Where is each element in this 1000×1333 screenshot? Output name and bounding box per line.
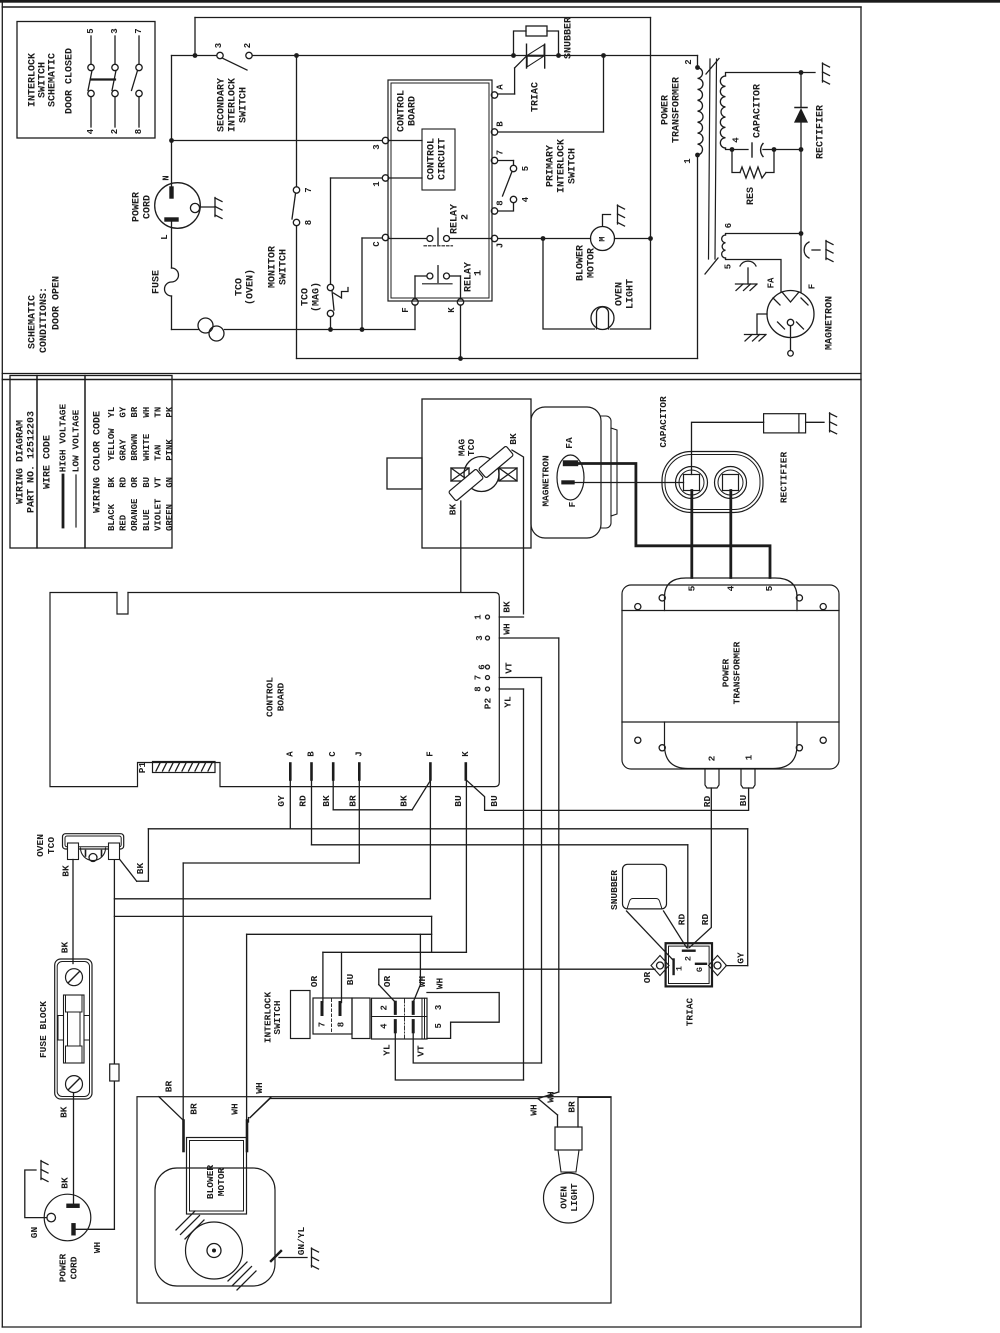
power cord L slot xyxy=(165,218,179,222)
svg-text:SNUBBER: SNUBBER xyxy=(564,17,575,59)
svg-text:TRIAC: TRIAC xyxy=(531,82,542,112)
svg-text:DOOR OPEN: DOOR OPEN xyxy=(52,276,63,330)
svg-text:7: 7 xyxy=(318,1022,328,1027)
capacitor right terminal xyxy=(715,467,747,499)
svg-text:8: 8 xyxy=(304,220,314,225)
junction dot primary top xyxy=(695,65,700,70)
svg-text:7: 7 xyxy=(496,150,506,155)
junction dot monitor riser top xyxy=(294,53,299,58)
wire bottom rail of schematic xyxy=(297,358,698,360)
rectifier diode line xyxy=(800,73,802,108)
relay 1 lower bar xyxy=(423,283,452,285)
core end slash top xyxy=(706,59,719,75)
wire ground pin stub xyxy=(200,206,215,208)
oven light bulb (schematic) xyxy=(591,307,614,330)
junction dot pin 3 line xyxy=(169,138,174,143)
interlock switch left block xyxy=(291,991,311,1039)
svg-text:2: 2 xyxy=(684,956,694,961)
svg-text:5: 5 xyxy=(434,1023,444,1028)
svg-text:OR: OR xyxy=(642,972,653,984)
wire WH blower branch line xyxy=(247,933,432,935)
chassis ground GN/YL xyxy=(311,1248,313,1267)
svg-text:MAGNETRON: MAGNETRON xyxy=(825,296,836,350)
power cord N slot xyxy=(170,187,174,199)
svg-text:2: 2 xyxy=(243,43,253,48)
wire BU slot 8 riser xyxy=(341,952,343,1002)
power cord body (schematic) xyxy=(155,183,201,229)
svg-text:WH: WH xyxy=(434,978,445,990)
svg-text:2: 2 xyxy=(461,214,472,220)
TCO MAG contact bottom xyxy=(327,310,333,316)
svg-text:VT: VT xyxy=(416,1045,427,1057)
wire WH power cord slot to riser xyxy=(76,1228,115,1230)
svg-text:VIOLET VT TAN TN: VIOLET VT TAN TN xyxy=(153,407,163,531)
schematic section top border xyxy=(2,6,861,8)
svg-text:2: 2 xyxy=(684,59,694,64)
control board outer box (schematic) xyxy=(388,80,492,301)
magnetron FA terminal stub xyxy=(563,461,578,467)
oven light loop wires xyxy=(543,239,595,330)
svg-text:K: K xyxy=(447,307,457,313)
svg-text:WH: WH xyxy=(529,1104,540,1116)
svg-text:WH: WH xyxy=(502,623,513,635)
wire OR triac to slot 2 xyxy=(379,968,655,970)
svg-text:MOTOR: MOTOR xyxy=(587,248,598,278)
relay 2 armature bar xyxy=(437,228,439,244)
MAG TCO left terminal xyxy=(451,468,469,481)
svg-text:4: 4 xyxy=(732,137,742,143)
oven cavity box xyxy=(137,1097,611,1303)
wire monitor switch to bottom rail xyxy=(296,226,298,359)
wire contact 4 to pin 8 xyxy=(498,203,514,211)
TCO MAG thermal flag xyxy=(334,288,349,299)
oven light neck xyxy=(558,1150,579,1172)
wire TCO oven line to pin F riser xyxy=(225,329,416,331)
svg-text:SWITCH: SWITCH xyxy=(568,148,579,184)
svg-text:FUSE BLOCK: FUSE BLOCK xyxy=(38,1001,49,1058)
wire fuse block to power cord BK xyxy=(73,1093,75,1204)
feedthrough arc at rectifier line xyxy=(804,242,809,258)
svg-text:J: J xyxy=(496,243,506,248)
TCO MAG contact top xyxy=(327,284,333,290)
svg-text:3: 3 xyxy=(214,43,224,48)
svg-text:TCO: TCO xyxy=(235,278,246,296)
wire RD transformer to triac pin 2 xyxy=(690,788,712,948)
svg-text:BK: BK xyxy=(59,942,70,954)
svg-text:1: 1 xyxy=(372,181,382,187)
RES branch xyxy=(732,150,740,173)
svg-text:F: F xyxy=(808,284,818,289)
svg-text:5: 5 xyxy=(687,585,698,591)
pin 7 of control board xyxy=(491,157,497,163)
wire filament lead 6 xyxy=(726,234,802,236)
splice box on WH wire xyxy=(110,1064,119,1081)
svg-text:LIGHT: LIGHT xyxy=(569,1183,580,1212)
svg-text:F: F xyxy=(567,501,578,507)
svg-text:8: 8 xyxy=(134,129,144,134)
svg-text:F: F xyxy=(425,751,435,756)
svg-text:INTERLOCK: INTERLOCK xyxy=(228,78,239,132)
svg-text:CONTROL: CONTROL xyxy=(265,677,276,717)
wire hot line right segment to transformer xyxy=(252,55,697,57)
svg-text:OR: OR xyxy=(382,976,393,988)
svg-text:5: 5 xyxy=(724,264,734,269)
power cord ground pin xyxy=(190,203,199,212)
oven TCO bracket ticks xyxy=(85,851,87,857)
snubber resistor box xyxy=(526,26,547,36)
power cord BK slot xyxy=(67,1204,80,1208)
wire WH from P2 down xyxy=(558,638,560,1092)
page top black bar xyxy=(0,0,1000,3)
wire HV bottom lead xyxy=(726,148,749,150)
junction dot TCO mag at line xyxy=(328,327,333,332)
svg-text:TRIAC: TRIAC xyxy=(685,997,696,1026)
oven light bulb (wiring) xyxy=(544,1173,594,1223)
junction dot filament top line xyxy=(799,231,804,236)
svg-text:2: 2 xyxy=(707,755,718,761)
power transformer flange (wiring) xyxy=(622,585,839,769)
monitor switch blade xyxy=(292,194,296,220)
svg-text:BR: BR xyxy=(189,1103,200,1115)
relay 1 contacts xyxy=(427,273,433,279)
relay 2 actuator dashed bar xyxy=(424,245,453,247)
magnetron antenna dot xyxy=(787,319,793,325)
oven TCO bracket hole xyxy=(89,854,97,862)
wire BR pin J to blower motor xyxy=(358,780,360,864)
wire pin B riser to hot line xyxy=(498,131,604,133)
svg-text:LIGHT: LIGHT xyxy=(626,279,637,309)
triac left mounting ear xyxy=(651,956,669,976)
transformer core top edge xyxy=(622,610,839,612)
control circuit box xyxy=(422,129,455,190)
svg-text:WH: WH xyxy=(417,976,428,988)
power cord body (wiring) xyxy=(44,1194,91,1241)
magnetron filament V xyxy=(782,292,799,302)
wire magnetron left to ground xyxy=(757,314,767,334)
capacitor plates xyxy=(751,143,753,157)
wire pin F riser xyxy=(414,305,416,330)
wire MAG TCO left terminal down to board edge xyxy=(460,501,462,592)
wire pin K riser xyxy=(460,305,462,359)
MAG TCO strap lower-left xyxy=(448,469,483,501)
svg-text:1: 1 xyxy=(683,158,693,164)
rectifier body (wiring) xyxy=(764,414,806,433)
secondary interlock blade xyxy=(223,59,247,71)
svg-text:FUSE: FUSE xyxy=(152,270,163,294)
blower fan circle xyxy=(186,1222,243,1279)
svg-text:GN/YL: GN/YL xyxy=(296,1226,307,1255)
rectifier diode band xyxy=(798,414,800,433)
interlock switch bank 2-4-3-5 xyxy=(372,998,428,1039)
wire capacitor to rectifier line xyxy=(763,149,801,151)
svg-text:BR: BR xyxy=(567,1101,578,1113)
svg-text:M: M xyxy=(598,236,608,241)
svg-text:BK: BK xyxy=(399,795,410,807)
svg-text:BU: BU xyxy=(453,795,464,807)
wire RD pin B to triac pin 2 xyxy=(311,780,313,845)
chassis ground at blower motor xyxy=(617,205,619,224)
svg-text:CAPACITOR: CAPACITOR xyxy=(658,396,669,448)
svg-text:TCO: TCO xyxy=(46,837,57,854)
relay 2 contacts xyxy=(427,236,433,242)
magnetron body (wiring) xyxy=(531,407,601,538)
svg-text:WH: WH xyxy=(254,1082,265,1094)
svg-text:POWER: POWER xyxy=(132,192,143,222)
blower fan blade hatches upper xyxy=(176,1211,195,1230)
wire GY pin A to oven TCO and triac gate xyxy=(289,780,291,829)
svg-text:PART NO. 12512203: PART NO. 12512203 xyxy=(27,411,38,513)
wire FA to transformer terminal 5 left (high voltage) xyxy=(578,464,770,578)
section divider upper line xyxy=(2,373,861,375)
wire VT slot 5 to P2 xyxy=(413,1032,541,1063)
wire MAG TCO right terminal to P2 pin 1 (BK) xyxy=(512,450,524,614)
pin 1 of control board xyxy=(382,175,388,181)
svg-text:WH: WH xyxy=(92,1242,103,1254)
svg-text:BLOWER: BLOWER xyxy=(205,1165,216,1200)
svg-text:5: 5 xyxy=(86,28,96,33)
svg-text:SCHEMATIC: SCHEMATIC xyxy=(28,295,39,349)
transformer primary winding xyxy=(698,68,704,156)
slot 5 xyxy=(412,1021,415,1032)
svg-text:BLACK BK YELLOW YL: BLACK BK YELLOW YL xyxy=(107,407,117,531)
triac pin 2 bar xyxy=(683,950,695,952)
svg-text:CIRCUIT: CIRCUIT xyxy=(438,138,449,180)
wire relay 1 right lead to pin K xyxy=(450,275,461,277)
monitor switch contact 7 xyxy=(293,187,299,193)
svg-text:1: 1 xyxy=(474,614,484,620)
wire pin 1 into control circuit xyxy=(389,177,422,179)
pin C of control board xyxy=(382,234,388,240)
wire monitor switch riser from hot line xyxy=(296,56,298,187)
control board top notch xyxy=(117,593,128,615)
svg-text:RES: RES xyxy=(746,187,757,205)
svg-text:3: 3 xyxy=(475,635,485,640)
wire capacitor left terminal down to transformer 5 (high voltage) xyxy=(690,491,693,578)
MAG TCO left mounting tab xyxy=(387,458,422,489)
MAG TCO mounting plate xyxy=(422,399,531,548)
TCO OVEN interlocking arcs symbol xyxy=(198,318,213,333)
svg-text:OVEN: OVEN xyxy=(35,834,46,857)
svg-text:4: 4 xyxy=(521,196,531,202)
P1 connector xyxy=(153,762,216,773)
svg-text:YL: YL xyxy=(382,1044,393,1056)
svg-text:LOW VOLTAGE: LOW VOLTAGE xyxy=(71,409,82,472)
MAG TCO disc xyxy=(464,457,499,492)
primary interlock contact 4 xyxy=(510,196,516,202)
section divider lower line xyxy=(2,379,861,381)
wire pin C to riser xyxy=(362,237,382,239)
svg-text:4: 4 xyxy=(86,128,96,134)
wire blower ground stem xyxy=(603,215,611,227)
wire WH diagonal to blower xyxy=(250,1097,271,1118)
blower fan blade hatches lower xyxy=(228,1262,247,1281)
svg-text:POWER: POWER xyxy=(721,658,732,687)
chassis ground at power cord xyxy=(214,198,216,217)
junction dot pin C riser at line xyxy=(360,327,365,332)
wire OR slot 7 riser xyxy=(322,952,324,1002)
divider dash-dot xyxy=(404,999,406,1038)
svg-text:CONDITIONS:: CONDITIONS: xyxy=(39,287,50,353)
wire top neutral rail xyxy=(195,17,651,19)
svg-text:3: 3 xyxy=(434,1005,444,1010)
transformer bottom stub 2 xyxy=(705,769,719,788)
svg-text:BK: BK xyxy=(59,1177,70,1189)
wire capacitor left terminal up to rectifier xyxy=(692,422,764,474)
svg-text:P1: P1 xyxy=(137,762,148,774)
title block box WIRING COLOR CODE xyxy=(85,376,172,549)
chassis ground at rectifier (wiring) xyxy=(829,413,831,432)
junction dot primary bottom xyxy=(695,153,700,158)
transformer mounting holes xyxy=(635,603,641,609)
blower motor circle (schematic) xyxy=(591,227,615,251)
blower motor terminal bars xyxy=(182,1121,185,1152)
page right border xyxy=(860,7,862,1327)
divider dashed xyxy=(331,999,333,1033)
svg-text:WIRING COLOR CODE: WIRING COLOR CODE xyxy=(93,411,104,513)
magnetron F terminal stub xyxy=(562,481,575,485)
wire right vertical from top rail xyxy=(650,18,652,239)
svg-text:MONITOR: MONITOR xyxy=(268,246,279,288)
filament winding xyxy=(722,235,726,258)
oven light socket xyxy=(555,1127,582,1150)
svg-text:BK: BK xyxy=(502,601,513,613)
page bottom border line xyxy=(2,1326,861,1328)
interlock switch middle block xyxy=(352,998,370,1039)
slot 4 xyxy=(394,1021,397,1032)
secondary interlock contact 2 xyxy=(246,52,252,58)
title block box WIRING DIAGRAM xyxy=(10,376,37,549)
control board box (wiring) xyxy=(50,593,499,787)
feedthrough ground at rectifier line xyxy=(812,249,820,251)
slot 3 xyxy=(412,1002,415,1013)
wire triac gate from pin A xyxy=(498,93,515,95)
svg-text:BK: BK xyxy=(447,504,458,516)
svg-text:HIGH VOLTAGE: HIGH VOLTAGE xyxy=(58,404,69,473)
svg-text:5: 5 xyxy=(521,166,531,171)
junction dots cap to diode line xyxy=(772,147,777,152)
junction dots snubber and pin B riser xyxy=(511,53,516,58)
pin F of control board xyxy=(412,299,418,305)
snubber lead to triac pin 1 xyxy=(627,911,673,960)
svg-text:3: 3 xyxy=(110,28,120,33)
svg-text:YL: YL xyxy=(503,696,514,708)
svg-text:8: 8 xyxy=(337,1022,347,1027)
monitor switch contact 8 xyxy=(293,219,299,225)
fuse cartridge xyxy=(64,995,85,1063)
magnetron circle (schematic) xyxy=(767,291,814,338)
oven TCO right tab xyxy=(109,843,120,860)
svg-text:TRANSFORMER: TRANSFORMER xyxy=(732,641,743,704)
svg-text:SNUBBER: SNUBBER xyxy=(609,870,620,910)
wire oven TCO left tab to fuse block xyxy=(72,860,74,964)
svg-text:7: 7 xyxy=(134,28,144,33)
svg-text:BK: BK xyxy=(135,863,146,875)
triac gate bar xyxy=(696,963,706,965)
pin K of control board xyxy=(457,299,463,305)
svg-text:BU: BU xyxy=(345,974,356,986)
wire oven TCO tab down to power cord WH xyxy=(113,860,115,1230)
primary interlock blade xyxy=(503,172,513,197)
capacitor body (wiring) xyxy=(662,452,763,513)
svg-text:WIRE CODE: WIRE CODE xyxy=(43,435,54,489)
junction dot res branch left xyxy=(730,147,735,152)
svg-text:BK: BK xyxy=(508,433,519,445)
svg-text:GN: GN xyxy=(29,1227,40,1239)
TCO MAG blade xyxy=(332,291,334,311)
svg-text:J: J xyxy=(354,751,364,756)
svg-text:SECONDARY: SECONDARY xyxy=(217,78,228,132)
svg-text:TCO: TCO xyxy=(301,288,312,306)
svg-text:K: K xyxy=(461,751,471,757)
wire VT from P2 down xyxy=(541,678,543,1064)
svg-text:INTERLOCK: INTERLOCK xyxy=(557,139,568,193)
svg-text:6: 6 xyxy=(724,223,734,228)
title block box WIRE CODE xyxy=(37,376,85,549)
junction dot pin K riser at bottom rail xyxy=(458,356,463,361)
svg-text:C: C xyxy=(328,751,338,757)
wire relay 1 left lead to pin F xyxy=(415,275,427,277)
wire link line TCO to interlock riser xyxy=(114,915,431,917)
svg-text:ORANGE OR BROWN BR: ORANGE OR BROWN BR xyxy=(130,406,140,531)
svg-text:OR: OR xyxy=(309,976,320,988)
svg-text:4: 4 xyxy=(726,585,737,591)
relay 1 armature bar xyxy=(437,266,439,283)
svg-text:MAGNETRON: MAGNETRON xyxy=(541,455,552,507)
wire BR from oven light to cavity edge xyxy=(578,1097,611,1127)
wire pin 1 to TCO mag riser xyxy=(331,177,383,179)
svg-text:WH: WH xyxy=(546,1091,557,1103)
svg-text:BLOWER: BLOWER xyxy=(576,245,587,281)
power cord WH slot xyxy=(72,1223,76,1235)
svg-text:WH: WH xyxy=(230,1103,241,1115)
wire primary interlock from pin 7 xyxy=(498,160,514,162)
blower motor stator body xyxy=(187,1138,247,1215)
oven TCO left tab xyxy=(68,843,79,860)
junction dot HV top at rectifier line xyxy=(799,70,804,75)
transformer bottom stub 1 xyxy=(741,769,755,788)
wire blower motor row from pin J xyxy=(498,238,591,240)
svg-text:P2: P2 xyxy=(483,698,494,710)
svg-text:FA: FA xyxy=(767,277,777,288)
jumper wire terminal 3 to terminal 5 xyxy=(427,993,499,1039)
magnetron vanes xyxy=(773,298,780,305)
wire GN/YL to ground xyxy=(279,1257,307,1259)
svg-text:PRIMARY: PRIMARY xyxy=(546,145,557,187)
wire rectifier to ground xyxy=(806,421,824,423)
slot 7 xyxy=(321,1003,324,1015)
svg-text:BOARD: BOARD xyxy=(408,96,419,126)
svg-text:POWER: POWER xyxy=(661,95,672,125)
wire neutral left vertical to power cord N xyxy=(171,56,173,187)
snubber body (wiring) xyxy=(623,864,667,909)
svg-text:GY: GY xyxy=(736,952,747,964)
pin 3 of control board xyxy=(382,137,388,143)
svg-text:1: 1 xyxy=(474,270,485,276)
wire BK pin C jumper to pin F xyxy=(332,780,334,810)
wire WH long line to oven light and blower xyxy=(270,1098,538,1100)
primary interlock contact 5 xyxy=(510,165,516,171)
wire relay row pin C to pin J xyxy=(389,238,427,240)
wire YL slot 4 to P2 xyxy=(395,1032,523,1080)
chassis ground at power cord (wiring) xyxy=(40,1161,42,1180)
svg-text:BLUE BU WHITE WH: BLUE BU WHITE WH xyxy=(142,407,152,531)
blower scroll housing xyxy=(155,1168,275,1286)
MAG TCO strap upper-right xyxy=(478,446,513,478)
junction dot at drop xyxy=(193,53,198,58)
wire GY left end to oven TCO right tab xyxy=(147,829,149,881)
svg-text:MOTOR: MOTOR xyxy=(216,1167,227,1196)
snubber loop wires xyxy=(514,31,527,56)
